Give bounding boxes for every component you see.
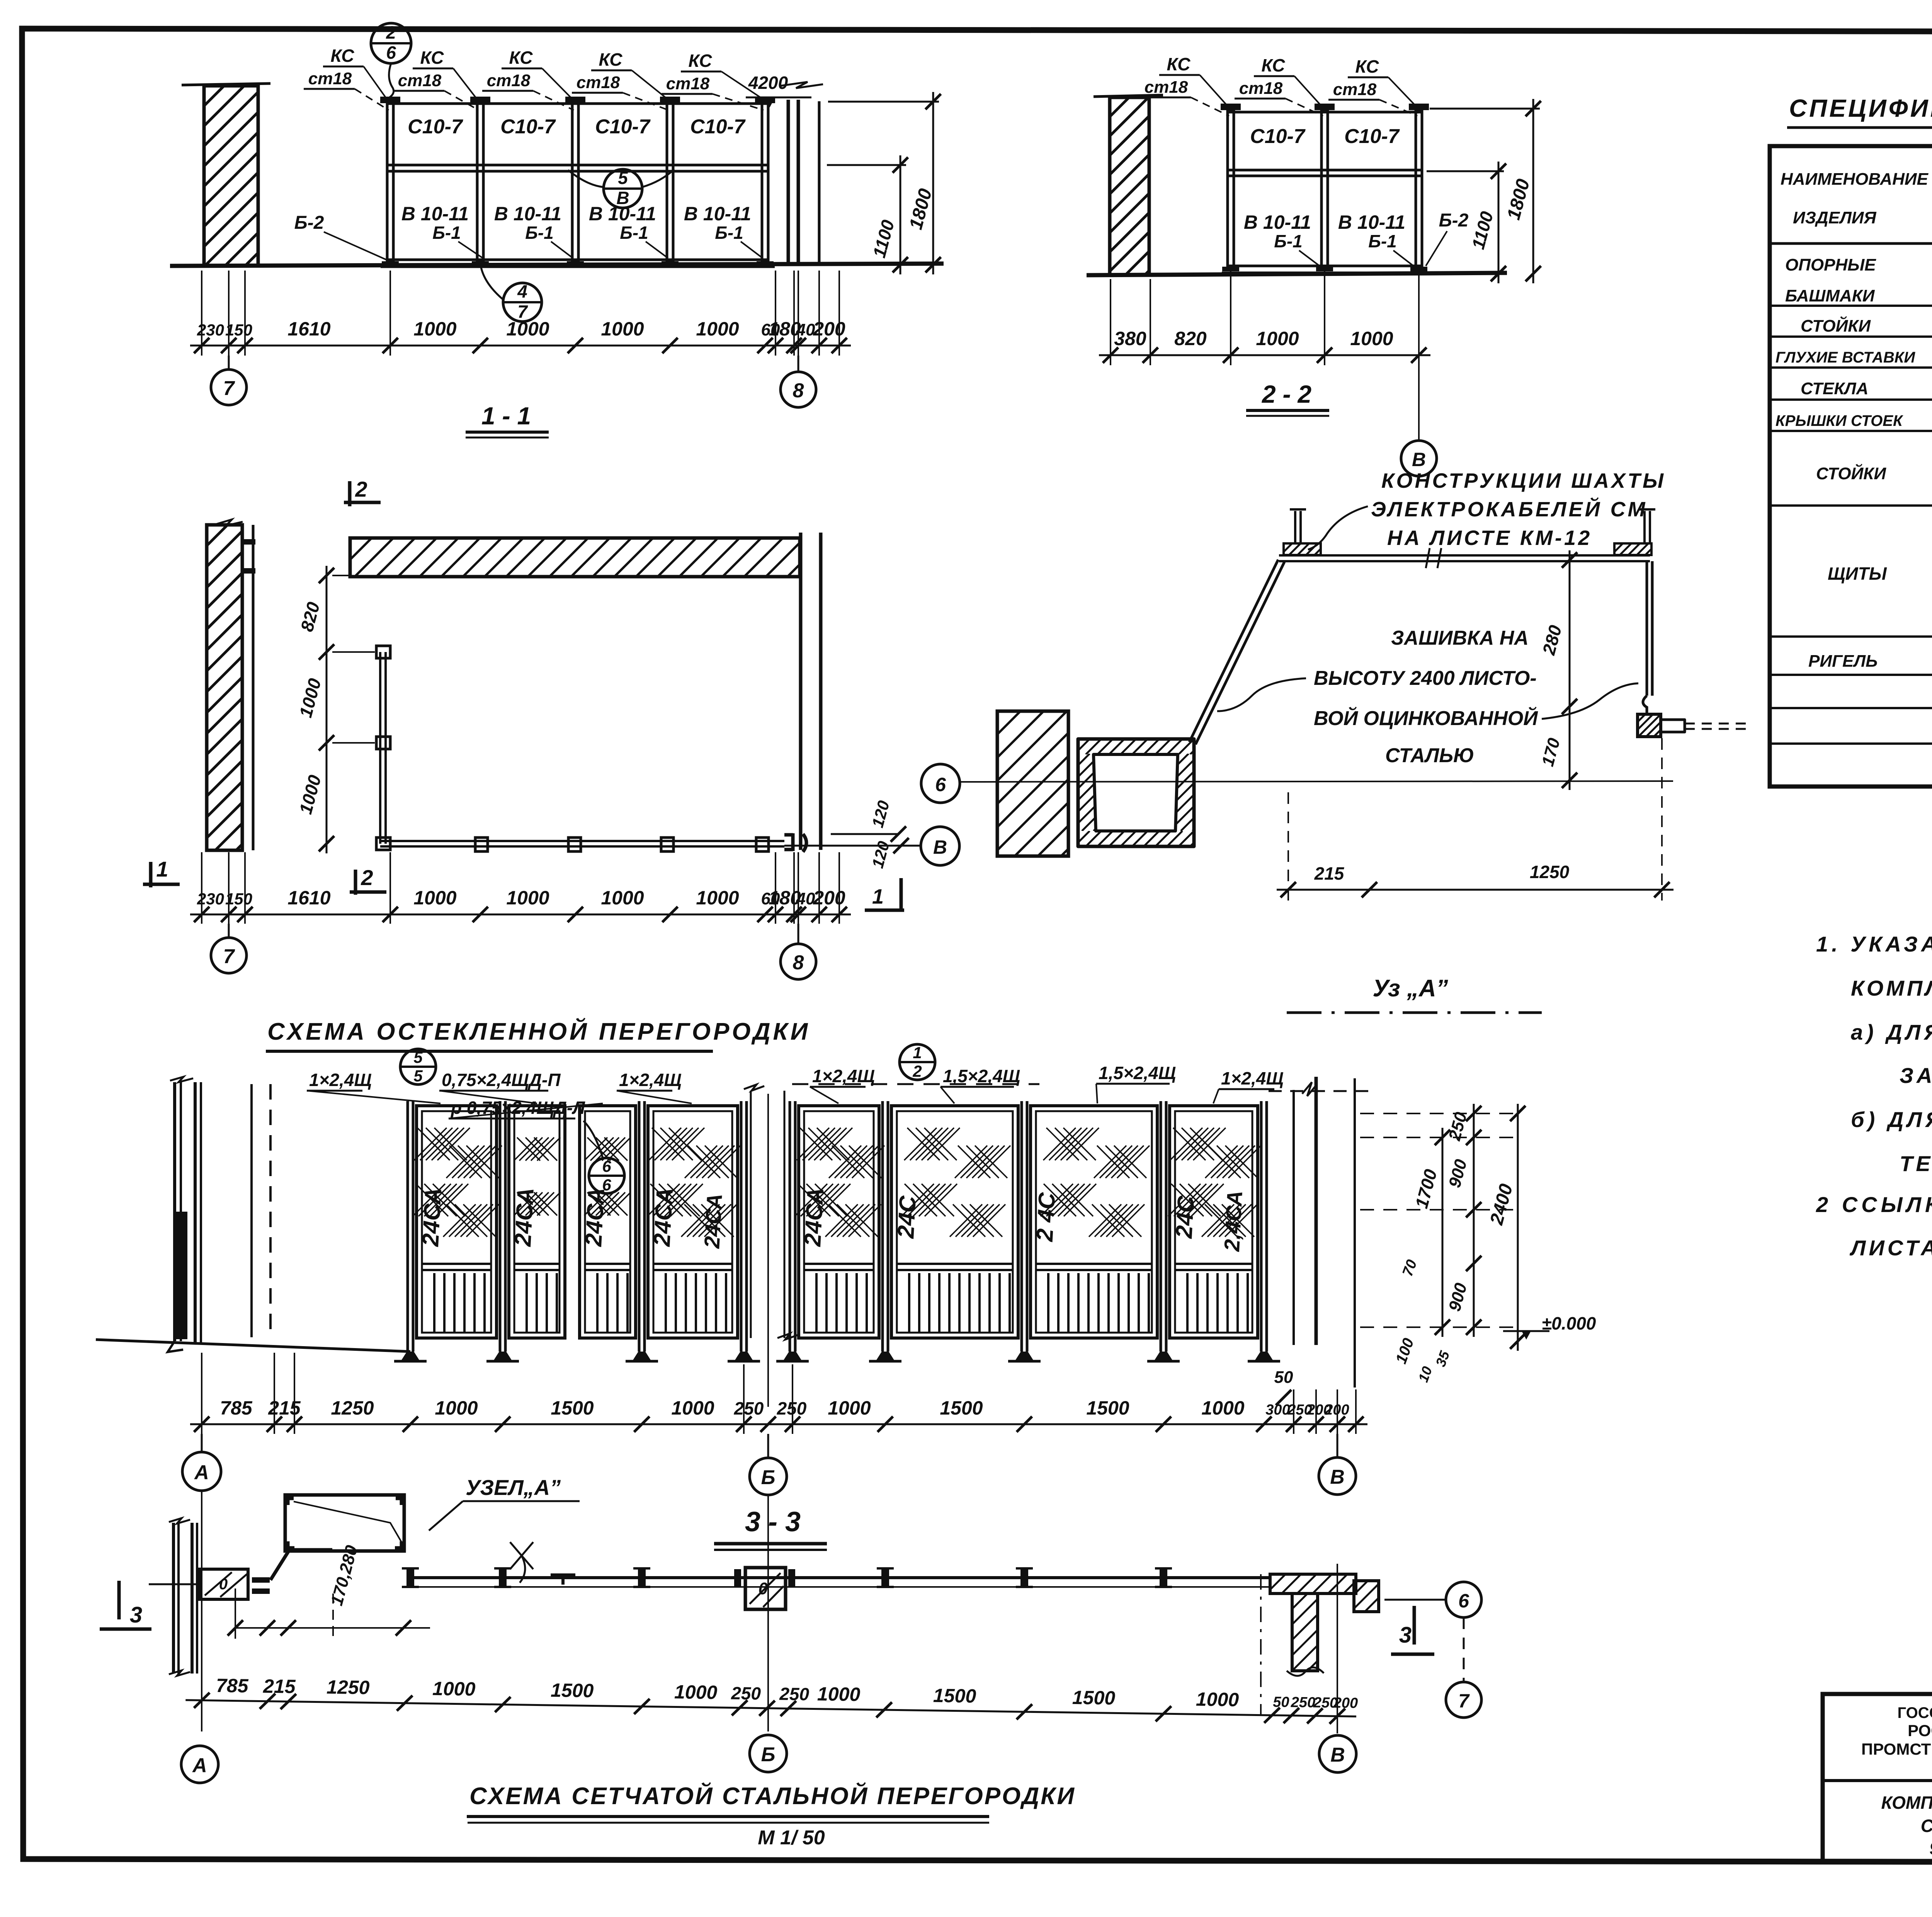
- node A: right clamp with pin: [1614, 543, 1651, 555]
- svg-text:М 1/ 50: М 1/ 50: [758, 1827, 825, 1849]
- svg-text:8: 8: [793, 952, 804, 974]
- svg-text:1: 1: [872, 885, 884, 908]
- section 1-1: floor ground line: [170, 264, 944, 266]
- specification table header row line: [1770, 242, 1932, 245]
- svg-text:БАШМАКИ: БАШМАКИ: [1785, 286, 1875, 305]
- svg-text:1×2,4Щ: 1×2,4Щ: [1221, 1068, 1284, 1088]
- svg-text:230: 230: [197, 890, 224, 908]
- mesh elevation: mesh panels with frames, mesh patches, louvre slats: [417, 1106, 497, 1338]
- svg-text:1500: 1500: [940, 1397, 983, 1419]
- mesh elevation: detail circle 1/2: [900, 1044, 935, 1080]
- svg-text:С10-7: С10-7: [1250, 125, 1306, 148]
- svg-text:В 10-11: В 10-11: [684, 203, 751, 225]
- svg-text:1000: 1000: [601, 887, 644, 909]
- svg-text:2 ССЫЛКИ НА МОНТАЖНЫЕ УЗЛ: 2 ССЫЛКИ НА МОНТАЖНЫЕ УЗЛЫ СМОТРИТЕ НА: [1816, 1192, 1932, 1217]
- svg-text:200: 200: [813, 318, 845, 340]
- svg-text:ИЗДЕЛИЯ: ИЗДЕЛИЯ: [1793, 208, 1876, 227]
- svg-text:5: 5: [618, 168, 628, 188]
- svg-text:КОНСТРУКЦИИ ШАХТЫ: КОНСТРУКЦИИ ШАХТЫ: [1381, 469, 1666, 492]
- svg-text:1500: 1500: [1086, 1397, 1129, 1419]
- svg-text:4200: 4200: [748, 73, 788, 93]
- svg-text:300: 300: [1265, 1402, 1290, 1418]
- plan 3-3: bottom dimension line: [185, 1674, 1358, 1724]
- mesh elevation: right wall lines: [1293, 1090, 1295, 1345]
- glazed plan: left hatched wall: [207, 525, 242, 850]
- svg-text:НА ЛИСТЕ КМ-12: НА ЛИСТЕ КМ-12: [1387, 526, 1592, 550]
- section 1-1: right shaft wall lines: [787, 100, 790, 266]
- node A: diagonal sheet double line: [1189, 560, 1278, 742]
- section 2-2: vertical dimension 1100: [1427, 170, 1504, 172]
- glazed plan: wall pilaster marks: [242, 539, 255, 545]
- mesh elevation: dashed level lines to right dims: [1360, 1113, 1522, 1114]
- section 2-2: axis circle В: [1418, 271, 1420, 441]
- glazed plan: circle 6 callout right: [921, 764, 960, 803]
- svg-text:820: 820: [1174, 328, 1207, 349]
- svg-text:КРЫШКИ СТОЕК: КРЫШКИ СТОЕК: [1776, 412, 1903, 429]
- section 1-1: bottom rail: [387, 259, 768, 261]
- svg-text:8: 8: [793, 380, 804, 402]
- svg-text:1000: 1000: [1256, 328, 1299, 349]
- svg-text:1000: 1000: [696, 318, 739, 340]
- svg-text:ст18: ст18: [666, 74, 710, 93]
- svg-text:5: 5: [413, 1048, 423, 1066]
- svg-text:Б-2: Б-2: [294, 213, 324, 233]
- svg-text:50: 50: [1274, 1368, 1293, 1387]
- mesh elevation: right dimension 1700: [1442, 1128, 1444, 1337]
- glazed plan: top hatched beam: [350, 538, 800, 577]
- plan 3-3: post marks: [406, 1568, 414, 1587]
- svg-text:24СА: 24СА: [580, 1187, 609, 1247]
- mesh elevation: detail circle 5/5: [400, 1049, 436, 1084]
- svg-text:1500: 1500: [551, 1679, 594, 1702]
- svg-text:ЭЛЕКТРОКАБЕЛЕЙ СМ: ЭЛЕКТРОКАБЕЛЕЙ СМ: [1371, 497, 1648, 521]
- plan 3-3: tee mark: [551, 1573, 575, 1577]
- svg-text:1500: 1500: [551, 1397, 594, 1419]
- svg-text:КС: КС: [599, 49, 623, 70]
- mesh elevation: left steel column: [173, 1082, 176, 1341]
- svg-text:1250: 1250: [331, 1397, 374, 1419]
- svg-text:ТЕЛЬНОЙ ЗАПИСКЕ СЕРИИ 1 431: ТЕЛЬНОЙ ЗАПИСКЕ СЕРИИ 1 431-10 ВЫПУСКИ 0…: [1900, 1151, 1932, 1176]
- svg-text:В: В: [1330, 1466, 1345, 1488]
- svg-text:5: 5: [413, 1067, 423, 1085]
- svg-text:КС: КС: [689, 51, 713, 71]
- section 1-1: vertical dimension 1100: [827, 164, 906, 166]
- svg-text:200: 200: [813, 887, 845, 909]
- plan 3-3: diagonal jog to node box: [270, 1550, 332, 1580]
- svg-text:ВЫСОТУ 2400 ЛИСТО-: ВЫСОТУ 2400 ЛИСТО-: [1314, 667, 1537, 690]
- svg-text:1,5×2,4Щ: 1,5×2,4Щ: [1099, 1063, 1176, 1083]
- svg-text:7: 7: [1458, 1690, 1470, 1712]
- mesh elevation: second wall line: [250, 1084, 253, 1337]
- svg-text:С10-7: С10-7: [690, 116, 746, 138]
- section 2-2: hatched brick wall column: [1110, 97, 1149, 275]
- svg-text:КС: КС: [1355, 56, 1379, 77]
- svg-text:Б: Б: [761, 1743, 776, 1766]
- glazed plan: right column double line: [799, 533, 803, 850]
- svg-text:1250: 1250: [1530, 862, 1570, 882]
- svg-text:1610: 1610: [287, 887, 330, 909]
- svg-text:ст18: ст18: [487, 71, 531, 90]
- svg-text:КОМПЛЕКТУЮЩИХ ИЗДЕЛИЙ ПЕРЕ: КОМПЛЕКТУЮЩИХ ИЗДЕЛИЙ ПЕРЕГОРОДОК ДАНЫ.: [1851, 976, 1932, 1000]
- svg-text:4: 4: [517, 281, 527, 301]
- svg-text:6: 6: [602, 1176, 611, 1194]
- svg-text:7: 7: [223, 945, 235, 968]
- svg-text:215: 215: [263, 1675, 296, 1697]
- svg-text:6: 6: [935, 774, 946, 795]
- node A: axis witness verticals: [1287, 792, 1289, 901]
- node A: top sheet plate double line: [1279, 554, 1650, 557]
- node A: dimension line 215/1250: [1277, 889, 1673, 891]
- glazed plan: axis circle 7: [228, 924, 230, 938]
- svg-text:250: 250: [731, 1683, 761, 1703]
- section 1-1: detail circle 5/8 with leaders: [604, 169, 642, 208]
- glazed plan: circle В right: [784, 845, 920, 847]
- svg-text:В: В: [1330, 1744, 1345, 1766]
- svg-text:250: 250: [1290, 1694, 1315, 1711]
- svg-text:2,4СА: 2,4СА: [1219, 1190, 1247, 1252]
- svg-text:а) ДЛЯ ОСТЕКЛЕННЫХ ПЕРЕГОРОД: а) ДЛЯ ОСТЕКЛЕННЫХ ПЕРЕГОРОДОК В ПОЯСНИТ…: [1851, 1020, 1932, 1044]
- svg-text:КОМПРЕССОРНАЯ: КОМПРЕССОРНАЯ: [1881, 1793, 1932, 1813]
- svg-text:0: 0: [759, 1579, 768, 1598]
- plan 3-3: left wall column: [172, 1523, 175, 1674]
- svg-text:250: 250: [779, 1684, 810, 1704]
- svg-text:1250: 1250: [327, 1676, 370, 1699]
- svg-text:3: 3: [1399, 1622, 1412, 1648]
- svg-text:1000: 1000: [674, 1681, 718, 1703]
- svg-text:1×2,4Щ: 1×2,4Щ: [309, 1070, 372, 1090]
- svg-text:Б-1: Б-1: [620, 223, 648, 243]
- svg-text:1000: 1000: [506, 318, 549, 340]
- svg-text:б) ДЛЯ СЕТЧАТЫХ СТАЛЬНЫХ П: б) ДЛЯ СЕТЧАТЫХ СТАЛЬНЫХ ПЕРЕГОРОДОК В П…: [1851, 1107, 1932, 1132]
- svg-text:1500: 1500: [1072, 1687, 1116, 1709]
- svg-text:380: 380: [1114, 328, 1146, 349]
- svg-text:785: 785: [220, 1397, 253, 1419]
- svg-text:В: В: [1412, 449, 1426, 470]
- plan 3-3: circle 7 callout: [1463, 1617, 1465, 1681]
- specification table frame: [1770, 146, 1932, 787]
- node A: horizontal axis line: [960, 781, 1673, 782]
- svg-text:3 - 3: 3 - 3: [745, 1507, 801, 1537]
- mesh elevation: witness lines below: [201, 1353, 202, 1434]
- node A: plate break marks: [1426, 548, 1430, 568]
- svg-text:250: 250: [777, 1398, 807, 1418]
- svg-text:24С: 24С: [1171, 1195, 1199, 1239]
- plan 3-3: right corner hatched walls: [1270, 1574, 1356, 1594]
- section 1-1: bottom dimension line 230/150/1610/1000x4/60/180/40/200: [190, 345, 851, 347]
- svg-text:СХЕМА СЕТЧАТОЙ СТАЛЬНОЙ ПЕР: СХЕМА СЕТЧАТОЙ СТАЛЬНОЙ ПЕРЕГОРОДКИ: [469, 1782, 1076, 1810]
- svg-text:КС: КС: [331, 46, 355, 66]
- svg-text:24СА: 24СА: [799, 1187, 828, 1247]
- svg-text:1: 1: [156, 857, 168, 881]
- svg-text:1610: 1610: [287, 318, 330, 340]
- svg-text:В: В: [616, 188, 629, 208]
- svg-text:50: 50: [1273, 1694, 1289, 1711]
- svg-text:2 - 2: 2 - 2: [1262, 380, 1311, 408]
- plan 3-3: axis dashed lines: [1260, 1574, 1262, 1716]
- glazed plan: left vertical dimension 820/1000/1000: [326, 566, 328, 853]
- node A: vertical dimension 280/170: [1569, 550, 1571, 790]
- mesh elevation: detail circle 6/6 with leader: [589, 1158, 624, 1193]
- svg-text:24СА: 24СА: [510, 1187, 539, 1247]
- svg-text:ст18: ст18: [1333, 80, 1377, 99]
- svg-text:СТОЙКИ: СТОЙКИ: [1801, 316, 1871, 335]
- svg-text:С10-7: С10-7: [408, 116, 463, 138]
- svg-text:КС: КС: [1167, 54, 1191, 74]
- svg-text:Б-1: Б-1: [525, 223, 553, 243]
- svg-text:6: 6: [386, 43, 396, 63]
- svg-text:РИГЕЛЬ: РИГЕЛЬ: [1808, 652, 1878, 671]
- svg-text:24СА: 24СА: [699, 1193, 726, 1250]
- svg-text:ОПОРНЫЕ: ОПОРНЫЕ: [1785, 255, 1876, 274]
- svg-text:6: 6: [602, 1157, 611, 1175]
- svg-text:ЩИТЫ: ЩИТЫ: [1828, 564, 1887, 584]
- title block: frame: [1823, 1694, 1932, 1861]
- svg-text:ВОЙ ОЦИНКОВАННОЙ: ВОЙ ОЦИНКОВАННОЙ: [1314, 707, 1538, 730]
- mesh elevation: bottom dimension line: [190, 1423, 1367, 1425]
- svg-text:24С: 24С: [893, 1195, 921, 1239]
- svg-text:0,75×2,4ЩД-П: 0,75×2,4ЩД-П: [442, 1070, 561, 1090]
- svg-text:С10-7: С10-7: [595, 116, 651, 138]
- svg-text:ГЛУХИЕ ВСТАВКИ: ГЛУХИЕ ВСТАВКИ: [1776, 349, 1915, 366]
- svg-text:НАИМЕНОВАНИЕ: НАИМЕНОВАНИЕ: [1781, 170, 1929, 189]
- svg-text:ЗАШИВКА НА: ЗАШИВКА НА: [1391, 627, 1529, 649]
- section 2-2: rails: [1228, 111, 1422, 114]
- svg-text:С10-7: С10-7: [1344, 125, 1400, 148]
- svg-text:УЗЕЛ„А”: УЗЕЛ„А”: [466, 1475, 561, 1500]
- plan 3-3: node box diagonal pointer: [294, 1502, 403, 1544]
- section 1-1: hatched brick wall column: [204, 86, 258, 266]
- svg-text:7: 7: [223, 377, 235, 400]
- svg-text:СТАНЦИЯ: СТАНЦИЯ: [1921, 1816, 1932, 1836]
- svg-text:ст18: ст18: [398, 71, 442, 90]
- section 2-2: bottom dimension line 380/820/1000/1000: [1099, 354, 1430, 356]
- svg-text:1 - 1: 1 - 1: [481, 402, 531, 430]
- svg-text:ЗАПИСКЕ СЕРИИ 1 431- 11: ЗАПИСКЕ СЕРИИ 1 431- 11 ВЫПУСКИ 0,1: [1900, 1063, 1932, 1088]
- svg-text:1000: 1000: [1201, 1397, 1244, 1419]
- svg-text:ст18: ст18: [1145, 78, 1188, 97]
- glazed plan: axis circle 8: [798, 924, 799, 944]
- mesh elevation: posts 24С/24СА with feet: [406, 1101, 409, 1352]
- glazed plan: partition horizontal run with posts: [380, 840, 784, 842]
- section 2-2: posts СТ18 with caps КС and shoes: [1228, 110, 1234, 267]
- svg-text:ст18: ст18: [308, 69, 352, 88]
- section 1-1: witness lines: [201, 271, 202, 356]
- svg-text:СТАЛЬЮ: СТАЛЬЮ: [1385, 744, 1474, 767]
- svg-text:ст18: ст18: [577, 73, 620, 92]
- svg-text:РОСТОВСКИЙ: РОСТОВСКИЙ: [1908, 1721, 1932, 1740]
- svg-text:Б-1: Б-1: [432, 223, 461, 243]
- svg-text:1,5×2,4Щ: 1,5×2,4Щ: [943, 1066, 1020, 1086]
- svg-text:ЛИСТАХ ВЫШЕ УКАЗАННЫХ СЕРИЙ: ЛИСТАХ ВЫШЕ УКАЗАННЫХ СЕРИЙ.: [1849, 1236, 1932, 1260]
- svg-text:1×2,4Щ: 1×2,4Щ: [812, 1066, 875, 1086]
- svg-text:А: А: [194, 1461, 209, 1484]
- svg-text:785: 785: [216, 1675, 249, 1697]
- svg-text:230: 230: [197, 321, 224, 339]
- mesh elevation: right dimension 2400: [1517, 1104, 1519, 1351]
- svg-text:1000: 1000: [413, 318, 456, 340]
- mesh elevation: ground line sloping: [96, 1340, 410, 1352]
- svg-text:Б-1: Б-1: [1368, 231, 1396, 251]
- svg-text:200: 200: [1333, 1695, 1358, 1711]
- plan 3-3: node A callout box: [285, 1495, 404, 1551]
- plan 3-3: circle 6 callout: [1384, 1599, 1445, 1601]
- section 1-1: axis circle 8: [798, 356, 799, 372]
- glazed plan: end clamp bracket: [784, 833, 793, 851]
- svg-text:2: 2: [355, 477, 367, 501]
- svg-text:250: 250: [734, 1398, 764, 1418]
- svg-text:1: 1: [913, 1044, 922, 1062]
- svg-text:ст18: ст18: [1239, 79, 1283, 98]
- section 2-2: vertical dimension 1800: [1430, 108, 1540, 110]
- mesh elevation: partition break lines at Б gap: [750, 1091, 752, 1338]
- svg-text:КС: КС: [1262, 55, 1286, 75]
- svg-text:СПЕЦИФИКАЦИЯ: СПЕЦИФИКАЦИЯ: [1789, 94, 1932, 122]
- svg-text:Б-1: Б-1: [715, 223, 743, 243]
- svg-text:ГОССТРОЙ СССР: ГОССТРОЙ СССР: [1898, 1704, 1932, 1721]
- svg-text:В 10-11: В 10-11: [1338, 211, 1405, 233]
- svg-text:КС: КС: [420, 48, 444, 68]
- section 1-1: top rail: [387, 102, 768, 105]
- svg-text:3: 3: [130, 1602, 142, 1628]
- glazed plan: partition vertical run with posts: [379, 652, 381, 844]
- plan 3-3: break mark: [510, 1542, 533, 1583]
- svg-text:1. УКАЗАНИЯ ПО ИЗГОТОВЛЕНИЮ,: 1. УКАЗАНИЯ ПО ИЗГОТОВЛЕНИЮ, ОТДЕЛКЕ И М…: [1816, 932, 1932, 956]
- mesh elevation: right dimension 250/900/900: [1473, 1104, 1475, 1337]
- svg-text:2: 2: [361, 865, 373, 890]
- svg-text:А: А: [192, 1754, 207, 1777]
- svg-text:1000: 1000: [506, 887, 549, 909]
- section 2-2: floor ground line: [1087, 273, 1507, 275]
- plan 3-3: lower axis circles А Б В: [181, 1746, 218, 1783]
- svg-text:Уз „А”: Уз „А”: [1372, 975, 1448, 1002]
- svg-text:±0.000: ±0.000: [1542, 1313, 1596, 1333]
- svg-text:С10-7: С10-7: [500, 116, 556, 138]
- svg-text:24СА: 24СА: [649, 1187, 678, 1247]
- node A: left clamp with pin: [1284, 543, 1321, 555]
- svg-text:Б-1: Б-1: [1274, 231, 1302, 251]
- svg-text:1000: 1000: [696, 887, 739, 909]
- svg-text:1000: 1000: [435, 1397, 478, 1419]
- svg-text:24СА: 24СА: [417, 1187, 446, 1247]
- plan 3-3: Б axis post box: [745, 1568, 786, 1609]
- mesh elevation: axis circles А Б В upper row: [201, 1434, 203, 1452]
- svg-text:9К-500А: 9К-500А: [1929, 1838, 1932, 1858]
- svg-text:Б-2: Б-2: [1439, 210, 1469, 231]
- mesh elevation: top dashed datum line: [1269, 1090, 1376, 1092]
- svg-text:215: 215: [268, 1397, 301, 1419]
- svg-text:1000: 1000: [671, 1397, 714, 1419]
- svg-text:2 4С: 2 4С: [1032, 1191, 1060, 1243]
- svg-text:2: 2: [386, 22, 396, 43]
- svg-text:В 10-11: В 10-11: [494, 203, 561, 225]
- specification table full row lines: [1770, 305, 1932, 307]
- svg-text:1000: 1000: [601, 318, 644, 340]
- glazed plan: bottom dimension line: [190, 914, 851, 916]
- node A: left hatched wall block: [997, 711, 1068, 856]
- svg-text:1000: 1000: [1196, 1688, 1239, 1711]
- plan 3-3: partition line: [408, 1576, 1271, 1579]
- section 1-1: axis circle 7: [228, 356, 230, 370]
- svg-text:2: 2: [912, 1062, 922, 1080]
- section 1-1: detail circle 2/6: [371, 23, 411, 63]
- svg-text:В 10-11: В 10-11: [1244, 211, 1311, 233]
- svg-text:1000: 1000: [432, 1678, 476, 1700]
- svg-text:6: 6: [1458, 1590, 1469, 1612]
- section 1-1: detail circle 4/7 with leader: [503, 283, 542, 322]
- plan 3-3: anchor plate with hatch: [199, 1569, 248, 1599]
- svg-text:1000: 1000: [828, 1397, 871, 1419]
- svg-text:КС: КС: [509, 48, 533, 68]
- node A: channel section: [1078, 739, 1194, 846]
- section 1-1: middle rails: [387, 164, 768, 167]
- svg-text:СТОЙКИ: СТОЙКИ: [1816, 463, 1886, 483]
- plan 3-3: clamp bracket: [252, 1577, 270, 1583]
- svg-text:В 10-11: В 10-11: [401, 203, 469, 225]
- svg-text:СТЕКЛА: СТЕКЛА: [1801, 379, 1868, 398]
- plan 3-3: intermediate dim line: [235, 1627, 430, 1629]
- svg-text:1000: 1000: [1350, 328, 1393, 349]
- svg-text:В: В: [933, 836, 947, 858]
- svg-text:1×2,4Щ: 1×2,4Щ: [619, 1070, 682, 1090]
- section 1-1: vertical dimension 1800: [828, 101, 939, 103]
- svg-text:СХЕМА ОСТЕКЛЕННОЙ ПЕРЕГОРОДК: СХЕМА ОСТЕКЛЕННОЙ ПЕРЕГОРОДКИ: [267, 1018, 810, 1045]
- svg-text:1500: 1500: [933, 1685, 976, 1707]
- node A: right vertical sheet: [1646, 561, 1648, 696]
- svg-text:0: 0: [219, 1576, 228, 1593]
- svg-text:1000: 1000: [413, 887, 456, 909]
- section 1-1: glazed partition posts СТ18 with caps КС: [387, 103, 393, 262]
- svg-text:ПРОМСТРОЙНИИПРОЕКТ: ПРОМСТРОЙНИИПРОЕКТ: [1861, 1740, 1932, 1758]
- svg-text:215: 215: [1314, 863, 1345, 884]
- mesh elevation: Б axis line: [767, 1094, 769, 1407]
- node A: right foot bracket: [1643, 696, 1647, 715]
- mesh elevation: rigel dashed line over door gap: [792, 1083, 1039, 1085]
- svg-text:1000: 1000: [817, 1683, 861, 1706]
- svg-text:Б: Б: [761, 1466, 776, 1489]
